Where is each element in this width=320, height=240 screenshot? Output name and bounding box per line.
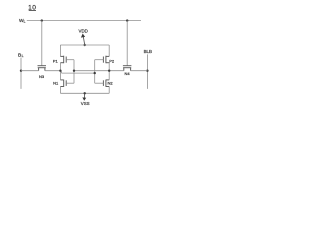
wire word line WL	[27, 20, 141, 22]
junction WL to N4 gate	[126, 19, 128, 21]
junction node B at P2 N2 drains	[108, 70, 110, 72]
junction BLB to N4	[146, 70, 148, 72]
net label VDD	[79, 28, 88, 33]
wire P2 gate	[95, 59, 104, 61]
svg-text:VDD: VDD	[79, 28, 88, 33]
wire bit line BLB	[146, 54, 148, 89]
node A jog down	[61, 71, 63, 73]
net label VSS	[81, 101, 90, 106]
label N4	[124, 71, 130, 76]
wire N3 gate drop	[41, 21, 43, 66]
wire N1 drain to node A	[59, 71, 61, 80]
wire N4 gate drop	[126, 21, 128, 66]
wire N2 drain to node B	[108, 71, 110, 80]
net label BLB	[144, 49, 152, 54]
svg-text:VSS: VSS	[81, 101, 90, 106]
junction node B at P1 N1 gate line	[73, 70, 75, 72]
wire P1 N1 common gate line	[73, 60, 75, 83]
svg-text:P2: P2	[109, 58, 115, 63]
transistor P2	[103, 56, 109, 64]
transistor N3 access	[38, 66, 47, 71]
node A wire from N3 to P1 N1 drains	[45, 70, 62, 72]
node A cross wire to P2 N2 gates	[62, 72, 95, 74]
label N1	[53, 81, 59, 86]
transistor N1	[60, 80, 66, 87]
svg-text:BLB: BLB	[144, 49, 152, 54]
svg-text:N1: N1	[53, 81, 59, 86]
figure reference numeral 10	[28, 5, 36, 12]
svg-text:N4: N4	[124, 71, 130, 76]
svg-text:L: L	[22, 54, 24, 58]
wire VDD rail	[60, 44, 109, 46]
VDD supply arrow	[81, 34, 85, 45]
node B wire from N4 to P1 N1 gates	[74, 70, 124, 72]
junction VDD rail	[84, 44, 86, 46]
label P2	[109, 58, 115, 63]
label P1	[53, 58, 59, 63]
transistor P1	[60, 56, 66, 64]
net label WL	[19, 18, 26, 24]
wire BL to N3	[21, 70, 39, 72]
wire VDD rail left drop to P1 source	[59, 45, 61, 56]
junction node A at P1 N1 drains	[59, 70, 61, 72]
svg-text:N3: N3	[39, 74, 45, 79]
transistor N2	[103, 80, 109, 87]
ground VSS arrow	[82, 93, 86, 101]
svg-text:L: L	[24, 20, 26, 24]
wire P1 drain to node A	[59, 63, 61, 71]
svg-text:N2: N2	[108, 81, 114, 86]
wire VDD rail right drop to P2 source	[108, 45, 110, 56]
net label BL	[18, 53, 24, 59]
wire P1 gate	[66, 59, 74, 61]
wire bit line BL	[20, 58, 22, 89]
svg-text:P1: P1	[53, 58, 59, 63]
wire N4 to BLB	[131, 70, 148, 72]
transistor N4 access	[123, 66, 131, 71]
wire N2 gate	[95, 82, 104, 84]
label N3	[39, 74, 45, 79]
junction BL to N3	[20, 70, 22, 72]
wire N2 source to VSS rail	[108, 87, 110, 94]
wire P2 drain to node B	[108, 63, 110, 71]
junction VSS rail	[84, 92, 86, 94]
wire N1 gate	[66, 82, 74, 84]
underline of reference numeral 10	[29, 10, 36, 12]
junction WL to N3 gate	[41, 19, 43, 21]
junction node A at P2 N2 gate line	[94, 72, 96, 74]
wire P2 N2 common gate line	[94, 60, 96, 83]
label N2	[108, 81, 114, 86]
wire N1 source to VSS rail	[59, 87, 61, 94]
wire VSS rail	[60, 92, 109, 94]
